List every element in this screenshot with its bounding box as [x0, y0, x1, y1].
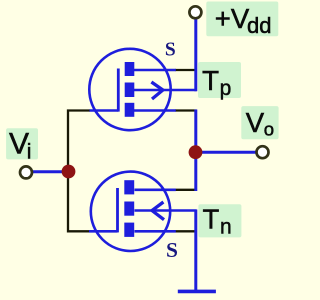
node input junction dot — [62, 165, 76, 179]
Tn channel segment source — [124, 223, 134, 237]
label box Vo — [241, 106, 278, 139]
wire: Tp drain to output line black — [175, 109, 197, 111]
transistor Tn (NMOS) — [89, 172, 197, 251]
Tp channel segment source — [125, 103, 135, 117]
Tn circle — [91, 172, 170, 251]
Tp drain lead (bottom) — [134, 109, 176, 112]
Tp body arrow — [151, 82, 163, 99]
Tp circle — [89, 49, 170, 130]
Tp body lead with arrow — [134, 89, 197, 92]
svg-text:S: S — [166, 238, 178, 262]
Tn channel segment body — [124, 202, 134, 216]
label box +Vdd — [206, 2, 278, 37]
Tp channel segment body — [125, 83, 135, 98]
svg-text:Vi: Vi — [9, 128, 31, 164]
wire: output vertical blue — [194, 110, 197, 192]
Tn source lead (bottom) — [135, 230, 176, 233]
svg-text:S: S — [165, 40, 176, 61]
wire: Tn drain to output line black — [175, 189, 197, 191]
label box Vi — [6, 128, 38, 159]
Tn gate lead — [89, 230, 118, 233]
wire: Vdd vertical blue — [194, 19, 197, 91]
Tp source lead (top) — [134, 69, 176, 72]
terminal +Vdd — [189, 6, 201, 18]
terminal Vo — [257, 146, 269, 158]
wire: Tp source to Vdd line black — [175, 69, 197, 71]
Tn body arrow — [152, 202, 164, 220]
wire: gate bus (input) black — [68, 111, 90, 232]
wire: Vi input blue — [32, 170, 66, 173]
Tn body lead with arrow — [135, 209, 197, 212]
Tp channel segment drain — [125, 62, 135, 76]
node output junction dot — [189, 145, 203, 159]
Tn gate bar — [116, 188, 119, 232]
label box Tp — [198, 62, 241, 98]
ground bar — [178, 290, 216, 294]
Tn drain lead (top) — [135, 189, 176, 192]
Tp gate bar — [117, 69, 120, 112]
terminal Vi — [20, 166, 32, 178]
label box Tn — [198, 204, 241, 237]
wire: Tn source to ground line black — [175, 230, 197, 232]
wire: Vo output blue — [195, 151, 256, 154]
transistor Tp (PMOS) — [89, 49, 196, 130]
Tp gate lead — [90, 109, 119, 112]
Tn channel segment drain — [124, 180, 134, 194]
wire: ground vertical blue — [194, 210, 197, 292]
